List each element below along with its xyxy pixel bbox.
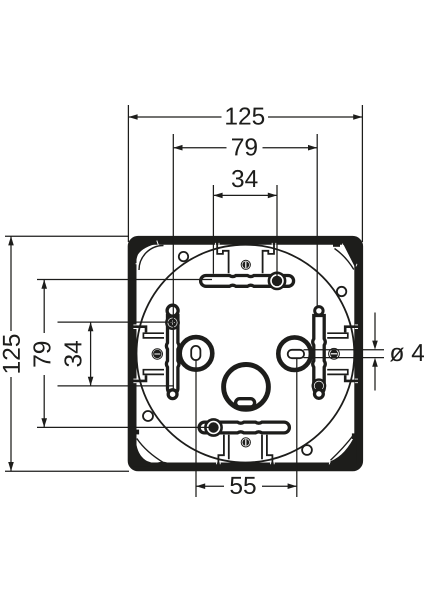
corner hole TR — [337, 287, 346, 296]
dim 34 top line — [213, 194, 277, 196]
border slit right top bracket — [355, 325, 358, 329]
contour chamfer BR — [331, 435, 354, 461]
top bracket left — [217, 244, 228, 273]
central circle — [224, 365, 269, 410]
arrow 125 L — [128, 114, 137, 120]
ext line 125 right — [361, 105, 363, 242]
label 34 top — [232, 170, 258, 187]
arrow dia4 B — [372, 358, 378, 367]
label 34 left — [64, 341, 81, 367]
corner slit BR — [329, 434, 351, 465]
corner pad BR — [330, 434, 357, 465]
label 125 left — [3, 335, 20, 373]
dim 34 left line — [90, 322, 92, 386]
dia4 line top — [304, 349, 385, 351]
ext line 79 left — [172, 134, 174, 389]
body circle — [137, 245, 355, 463]
arrow 125 T — [8, 236, 14, 245]
ext line 34 left — [212, 185, 214, 274]
left bracket bottom — [136, 375, 146, 381]
arrow 34 L — [213, 193, 222, 199]
border slit right bottom bracket — [355, 379, 358, 383]
left ext 79 top — [37, 279, 212, 281]
left ext 34 bottom — [58, 385, 175, 387]
thick border — [132, 240, 359, 467]
left tab bone — [166, 316, 179, 394]
border nicks top brackets — [215, 243, 275, 246]
bottom bone tab — [199, 422, 289, 433]
label 79 left — [33, 342, 50, 367]
left ext 125 top — [5, 235, 129, 237]
label 55 bottom — [230, 477, 255, 494]
ext line 79 right — [316, 134, 318, 307]
4mm hole — [329, 348, 340, 359]
contour chamfer BL — [137, 439, 164, 463]
corner pad TL — [135, 241, 159, 262]
left ext 34 top — [58, 321, 173, 323]
corner pad BL — [130, 445, 167, 467]
right slotted circle — [278, 337, 311, 370]
right tab top bump — [315, 307, 323, 315]
corner slit TR — [342, 244, 357, 267]
ext 55 left — [195, 359, 197, 497]
dim 125 top line — [128, 116, 362, 118]
border slit left top bracket — [133, 325, 136, 329]
ext 55 right — [296, 358, 298, 497]
dim 79 left line — [43, 280, 45, 428]
central notch — [236, 399, 255, 407]
border nicks bottom brackets — [217, 462, 275, 465]
bottom bone screw — [205, 419, 221, 435]
corner hole TL — [179, 252, 188, 261]
left bracket top — [136, 327, 146, 333]
dim 125 left line — [10, 236, 12, 471]
arrow 55 L — [196, 483, 205, 489]
label 79 top — [232, 138, 257, 155]
right bracket top — [345, 327, 355, 333]
corner slit TL — [136, 241, 159, 264]
corner hole BR — [302, 445, 312, 455]
bottom bracket left — [218, 435, 228, 463]
left tab screw — [166, 316, 178, 328]
arrow 79 R — [308, 145, 317, 151]
arrowheads — [8, 114, 378, 489]
right tab bottom bump — [315, 390, 324, 399]
arrow 79 T — [41, 280, 47, 289]
bottom small screw — [241, 438, 250, 447]
corner hole BL — [143, 411, 153, 421]
ext line 125 left — [127, 105, 129, 242]
dia4 arrow stems — [374, 313, 376, 342]
ext line 34 right — [276, 185, 278, 281]
left ext 79 bottom — [37, 426, 214, 428]
label 125 top — [226, 107, 264, 124]
arrow 79 B — [41, 418, 47, 427]
arrow 125 R — [353, 114, 362, 120]
left tab bottom bump — [168, 390, 177, 399]
arrow 79 L — [173, 145, 182, 151]
border slit left bottom bracket — [133, 379, 136, 383]
corner pad TR — [343, 242, 357, 268]
arrow dia4 T — [372, 341, 378, 350]
contour arc TL — [139, 246, 164, 271]
left small screw — [152, 349, 162, 359]
top bone tab — [201, 276, 294, 287]
top bracket right — [263, 244, 274, 273]
left tab top bump — [167, 305, 178, 316]
dim 79 top line — [173, 147, 317, 149]
arrow 34 B — [88, 377, 94, 386]
left ext 125 bottom — [5, 470, 129, 472]
top small screw — [241, 260, 250, 269]
top bone screw — [269, 273, 285, 289]
arrow 34 R — [268, 193, 277, 199]
arrow 55 R — [288, 483, 297, 489]
left slotted circle — [180, 337, 213, 370]
arrow 125 B — [8, 462, 14, 471]
dia4 line bottom — [304, 357, 385, 359]
right bracket bottom — [345, 375, 355, 381]
right tab screw — [313, 380, 325, 392]
contour chamfer TR — [335, 249, 354, 270]
label dia 4 — [390, 344, 424, 361]
dim 55 line — [196, 485, 297, 487]
right tab bone — [313, 316, 326, 394]
arrow 34 T — [88, 322, 94, 331]
bottom bracket right — [262, 435, 272, 463]
